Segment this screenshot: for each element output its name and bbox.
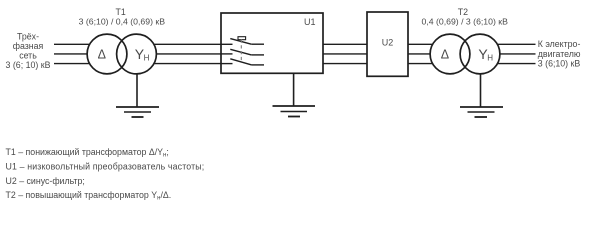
wire T2 output lines <box>480 44 536 63</box>
svg-text:T1 – понижающий трансформатор: T1 – понижающий трансформатор Δ/Yн; <box>6 147 169 159</box>
breaker pole 3 <box>221 59 264 65</box>
wire input three-phase lines <box>54 44 107 63</box>
svg-text:Δ: Δ <box>441 47 449 61</box>
breaker pole 1 <box>221 37 264 45</box>
svg-text:T2: T2 <box>458 7 468 17</box>
svg-text:T1: T1 <box>116 7 126 17</box>
svg-text:U1: U1 <box>304 17 316 27</box>
svg-text:U2 – синус-фильтр;: U2 – синус-фильтр; <box>6 176 85 186</box>
svg-text:3 (6; 10) кВ: 3 (6; 10) кВ <box>6 60 51 70</box>
transformer T2 <box>430 34 500 74</box>
svg-text:U1 – низковольтный преобразова: U1 – низковольтный преобразователь часто… <box>6 161 205 171</box>
ground under T1 <box>116 107 159 117</box>
converter U1 box <box>221 13 323 73</box>
wire U1 to U2 <box>323 44 367 63</box>
svg-text:3 (6;10) / 0,4 (0,69) кВ: 3 (6;10) / 0,4 (0,69) кВ <box>79 17 166 27</box>
svg-text:H: H <box>144 54 150 63</box>
svg-text:Δ: Δ <box>98 47 106 61</box>
node label three-phase network <box>6 32 51 70</box>
node label to electric motor <box>538 39 581 68</box>
svg-text:U2: U2 <box>382 38 394 48</box>
wire T1 to U1 <box>137 44 222 63</box>
filter U2 box <box>367 12 408 76</box>
svg-text:T2 – повышающий трансформатор: T2 – повышающий трансформатор Yн/Δ. <box>6 190 172 202</box>
ground under T2 <box>460 107 503 117</box>
svg-text:К электро-: К электро- <box>538 39 581 49</box>
transformer T1 <box>87 34 156 74</box>
wire U2 to T2 <box>408 44 450 63</box>
breaker pole 2 <box>221 49 264 55</box>
wire T2 neutral to ground <box>480 54 482 107</box>
svg-text:3 (6;10) кВ: 3 (6;10) кВ <box>538 59 581 69</box>
wire T1 neutral to ground <box>136 54 138 107</box>
svg-text:H: H <box>487 54 493 63</box>
breaker linkage dashed <box>240 40 242 62</box>
wire U1 to ground <box>293 73 295 106</box>
ground under U1 <box>273 106 316 117</box>
svg-text:0,4 (0,69) / 3 (6;10) кВ: 0,4 (0,69) / 3 (6;10) кВ <box>422 17 509 27</box>
svg-text:двигателю: двигателю <box>538 49 581 59</box>
